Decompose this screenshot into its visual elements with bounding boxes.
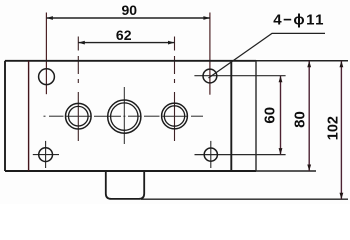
dimension 60 line with arrows <box>279 76 283 155</box>
wire left inner step line <box>28 61 30 171</box>
node bottom-left hole vertical centerline <box>45 141 47 168</box>
dimension 80 line with arrows <box>307 61 311 171</box>
dimension label 80 (rotated) <box>292 111 309 128</box>
wire right inner step line <box>255 61 257 171</box>
node left middle hole vertical centerline (extension for dim 62) <box>77 37 79 142</box>
node top-left hole vertical centerline (extension for dim 90) <box>45 13 47 95</box>
dimension 102 line with arrows <box>340 61 344 199</box>
node top-right hole horizontal centerline (extension for dim 60) <box>194 75 285 77</box>
port hole center (counterbored) <box>108 100 141 133</box>
dimension 62 line with arrows <box>78 41 174 45</box>
wire tab-bottom extension line (for dim 102) <box>141 198 348 200</box>
svg-text:60: 60 <box>261 107 278 124</box>
svg-text:62: 62 <box>116 27 132 43</box>
node right middle hole vertical centerline (extension for dim 62) <box>174 37 176 142</box>
node bottom-left hole horizontal centerline <box>33 154 59 156</box>
dimension label 102 (rotated) <box>325 116 341 140</box>
dimension label 62 <box>116 27 132 43</box>
node bottom-right hole vertical centerline <box>210 141 212 168</box>
node middle-row horizontal dash-dot centerline <box>44 115 204 117</box>
svg-text:90: 90 <box>122 2 138 18</box>
node center hole vertical centerline <box>123 87 125 144</box>
port hole right (counterbored) <box>162 103 188 129</box>
wire top-edge extension line (right of plate, for dims 80 and 102) <box>231 60 348 62</box>
node top-right hole vertical centerline (extension for dim 90) <box>209 13 211 95</box>
wire bottom-edge extension line (right of plate, for dim 80) <box>231 170 316 172</box>
hole top-right (phi 11) <box>203 69 217 83</box>
dimension 90 line with arrows <box>46 16 210 20</box>
leader line for hole callout <box>209 33 326 78</box>
svg-text:80: 80 <box>292 111 309 128</box>
svg-text:4−ϕ11: 4−ϕ11 <box>273 12 325 29</box>
hole top-left (phi 11) <box>39 69 55 85</box>
node bottom-right hole horizontal centerline (extension for dim 60) <box>195 154 286 156</box>
label 4-phi11 hole callout <box>273 12 325 29</box>
svg-text:102: 102 <box>325 116 341 140</box>
hole bottom-left (phi 11) <box>39 148 53 162</box>
bottom tab outline <box>106 171 144 199</box>
plate outline <box>5 61 256 171</box>
dimension label 60 (rotated) <box>261 107 278 124</box>
hole bottom-right (phi 11) <box>204 148 217 161</box>
port hole left (counterbored) <box>66 103 92 129</box>
dimension label 90 <box>122 2 138 18</box>
